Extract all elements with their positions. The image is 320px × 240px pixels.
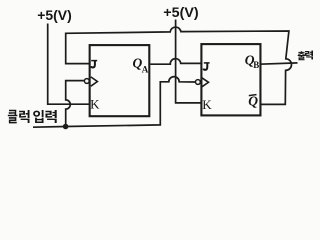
svg-text:+5(V): +5(V) xyxy=(163,5,198,20)
wire: clock input bottom line up to FF2 CK (with hop over center rail) xyxy=(33,77,196,128)
wire: QA to J2 (with hop over center rail) xyxy=(150,59,201,65)
wire: +5V left rail to K1 xyxy=(48,24,90,105)
pin label J of U1 xyxy=(91,61,97,68)
label: output (출력) drawn as vector glyphs xyxy=(298,51,313,61)
wire: QB output to 출력 xyxy=(260,63,298,64)
FF2 clock edge triangle xyxy=(202,78,209,87)
pin label J of U2 xyxy=(203,63,209,70)
svg-text:+5(V): +5(V) xyxy=(37,8,72,23)
wire: clock to FF1 CK (with hop over K1 wire) xyxy=(66,81,86,127)
junction: clock node dot xyxy=(63,124,69,130)
wire: +5V center rail to K2 xyxy=(176,20,201,103)
FF1 clock bubble xyxy=(84,79,89,84)
flip-flop U2 box xyxy=(201,44,260,115)
FF2 clock bubble xyxy=(196,80,201,85)
label: clock input (클럭입력) drawn as vector glyphs xyxy=(8,110,57,124)
svg-text:K: K xyxy=(90,97,100,112)
svg-text:K: K xyxy=(202,97,212,112)
svg-text:A: A xyxy=(142,64,149,74)
svg-text:B: B xyxy=(253,60,259,70)
wire: Q̄B feedback top rail to J1 (with hop over center rail and hop over QB wire) xyxy=(66,27,292,104)
flip-flop U1 box xyxy=(90,45,150,116)
FF1 clock edge triangle xyxy=(91,77,98,86)
